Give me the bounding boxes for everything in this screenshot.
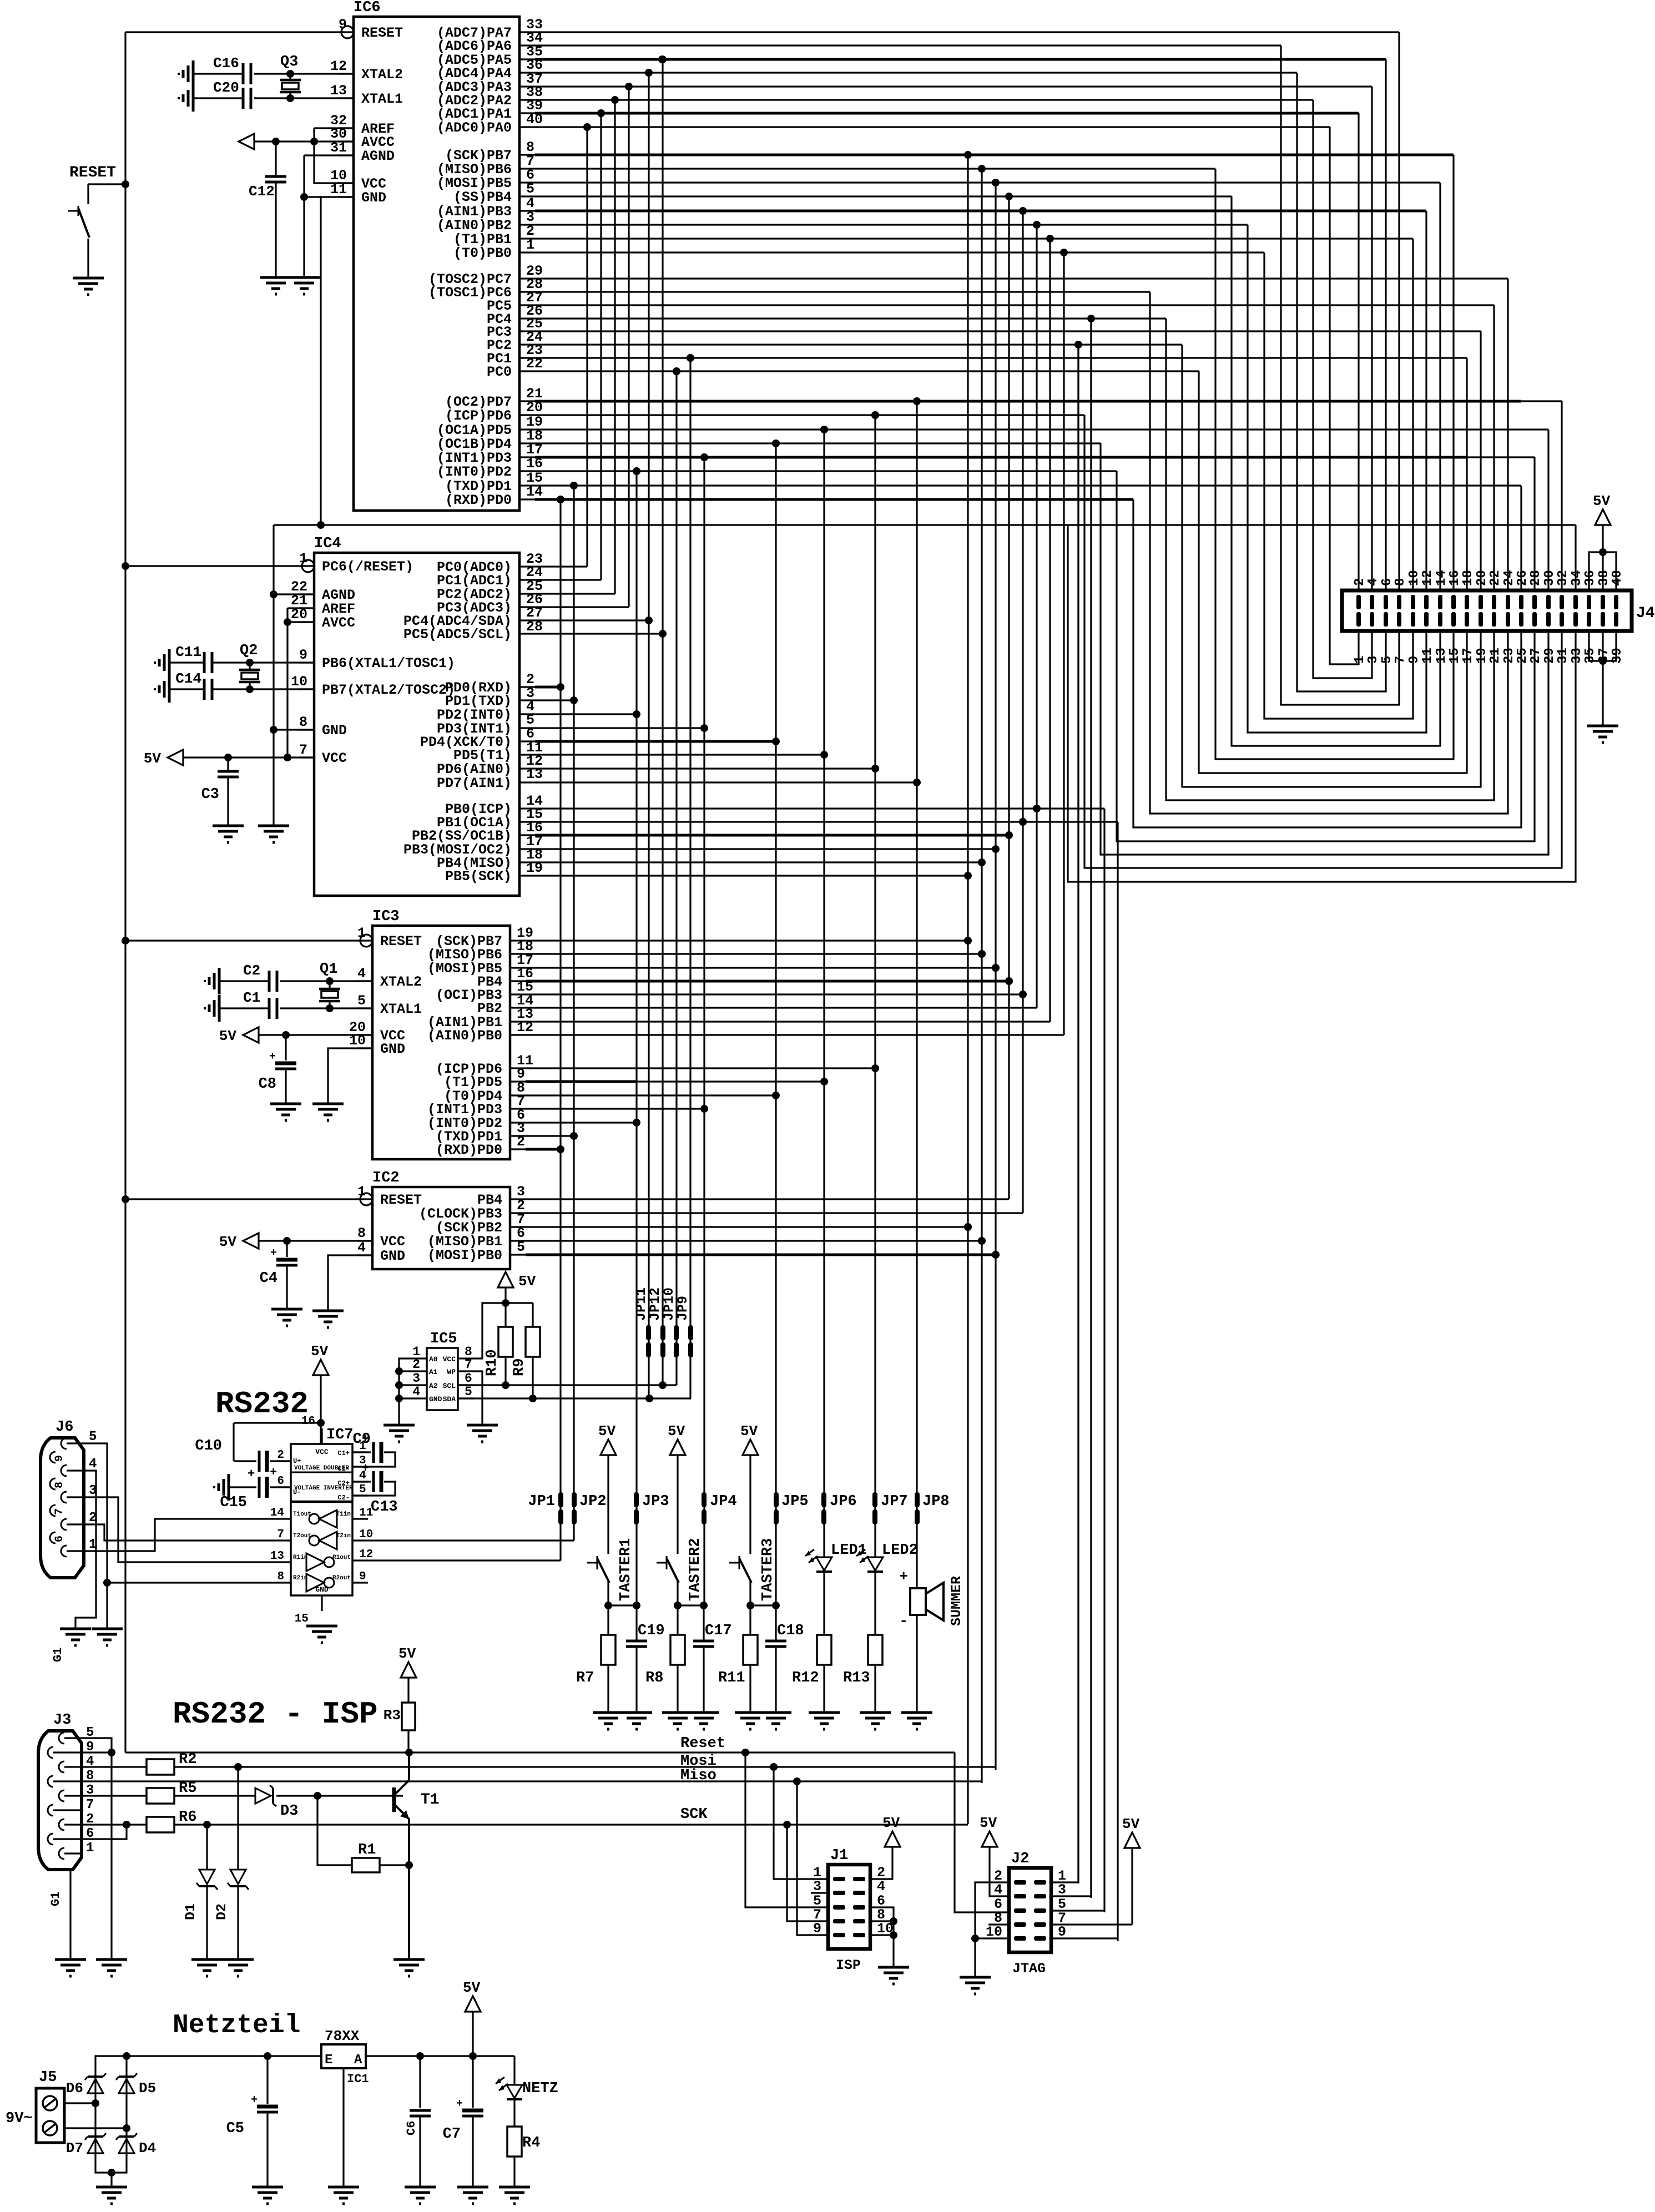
wire J2 pin8 stub (988, 1923, 1009, 1925)
zener diode D3 (174, 1785, 403, 1820)
svg-text:JP2: JP2 (579, 1493, 607, 1510)
svg-text:9: 9 (339, 17, 347, 33)
svg-text:VCC: VCC (380, 1234, 405, 1250)
wire IC4 PD7 row (535, 781, 917, 783)
wire IC4 PB3 row (535, 848, 996, 850)
svg-text:33: 33 (1570, 648, 1585, 664)
svg-text:13: 13 (270, 1550, 284, 1563)
label Netzteil section (173, 2011, 300, 2041)
resistor R1 (317, 1796, 413, 1872)
svg-text:R5: R5 (179, 1780, 196, 1797)
svg-text:A2: A2 (429, 1382, 438, 1390)
svg-text:(RXD)PD0: (RXD)PD0 (436, 1142, 502, 1158)
svg-text:15: 15 (295, 1613, 309, 1625)
wire bold IC4 PD0 row (535, 686, 561, 689)
wire net PD7 row to J4 pin32 (535, 397, 1562, 405)
wire net PA2 branch to IC4 PC2 (535, 100, 615, 594)
wire J4 pin19 wrap (1182, 345, 1481, 787)
svg-text:C10: C10 (195, 1438, 222, 1455)
wire net PB0 row to J4 wrap (535, 249, 1264, 256)
wire J2 pin2/pin10 to ground (971, 1882, 1009, 1977)
J6 pins (50, 1430, 97, 1662)
zener diode D2 (214, 1767, 249, 1960)
wire IC5 VCC (473, 1299, 533, 1358)
ground J3 shield (55, 1960, 86, 1976)
diode D5 (116, 2073, 156, 2097)
svg-text:26: 26 (1515, 570, 1530, 586)
wire J4 pin20 column up (1480, 331, 1481, 590)
svg-text:AVCC: AVCC (322, 615, 355, 631)
wire bold PD7 row (535, 400, 1521, 403)
wire J4 pin15 wrap (1215, 169, 1454, 759)
svg-text:RESET: RESET (380, 1192, 422, 1208)
wire J4 pin10 column up (1412, 239, 1414, 590)
wire SDA row (458, 1395, 691, 1402)
svg-text:C2: C2 (243, 962, 260, 979)
5V supply at TASTER1 (598, 1423, 616, 1554)
svg-text:C2+: C2+ (337, 1479, 350, 1487)
wire IC6 AVCC row (254, 138, 354, 145)
svg-text:4: 4 (357, 1240, 366, 1256)
svg-text:R8: R8 (645, 1670, 663, 1686)
svg-text:T2in: T2in (336, 1533, 351, 1539)
label JP2 (579, 1493, 607, 1510)
wire J3 pin5/pin9 to ground (82, 1738, 115, 1960)
svg-text:2: 2 (1353, 578, 1368, 586)
capacitor C2 (219, 962, 277, 992)
svg-text:C15: C15 (220, 1494, 247, 1511)
wire IC4 PB0 to J2 vertical (1103, 809, 1105, 1912)
wire IC4 PB0 row (535, 805, 1104, 812)
svg-text:C18: C18 (777, 1623, 804, 1639)
wire bridge bottom rail (95, 2153, 127, 2187)
wire IC3 PD6 row (526, 1067, 875, 1069)
svg-text:C8: C8 (259, 1076, 276, 1093)
wire IC4 AVCC row (284, 618, 314, 626)
capacitor C1 (219, 989, 277, 1019)
svg-text:J6: J6 (55, 1419, 73, 1436)
label Reset (680, 1735, 725, 1752)
wire net PB4 row to J4 wrap (535, 193, 1232, 200)
wire IC4 PD6 row (535, 767, 875, 769)
wire TDI lower (1077, 345, 1079, 1882)
wire IC4 AGND row (274, 593, 314, 595)
wire net SCK row (123, 1821, 968, 1829)
svg-text:C9: C9 (353, 1431, 371, 1448)
wire IC4 GND row (270, 726, 314, 734)
wire SPI vertical x=1744 (964, 155, 972, 1824)
wire Reset to J2 pin6 (955, 1753, 1009, 1912)
wire IC4 VCC row (183, 754, 314, 761)
ground IC1 (328, 2187, 359, 2204)
svg-text:13: 13 (330, 83, 347, 99)
label JP11 (633, 1287, 649, 1321)
wire net RESET vertical (122, 32, 129, 1753)
wire net PD2 row to J4 wrap (535, 467, 1117, 475)
label JP6 (830, 1493, 857, 1510)
resistor R2 (82, 1751, 196, 1775)
svg-text:5V: 5V (219, 1234, 237, 1250)
supply arrow IC3 VCC (219, 1027, 259, 1044)
ground IC3 GND (312, 1104, 344, 1120)
svg-text:8: 8 (277, 1570, 284, 1583)
svg-text:R2in: R2in (293, 1575, 307, 1582)
svg-text:R12: R12 (792, 1670, 819, 1686)
svg-text:C1: C1 (243, 989, 260, 1006)
svg-text:4: 4 (89, 1457, 97, 1472)
crystal Q1 (319, 961, 340, 1008)
label JP10 (661, 1287, 677, 1321)
ground IC5 WP (467, 1425, 498, 1442)
ground C14 (155, 676, 169, 703)
ground T1 (393, 1960, 425, 1976)
svg-text:(SS)PB4: (SS)PB4 (453, 189, 512, 205)
ground IC2 GND (312, 1311, 344, 1327)
wire IC4 RESET row (125, 565, 305, 567)
wire IC3 PB1 row (526, 1021, 1050, 1022)
capacitor C4 (260, 1241, 297, 1309)
svg-text:JP8: JP8 (922, 1493, 950, 1510)
wire net PC2 row to J4 wrap (535, 341, 1182, 349)
svg-text:5: 5 (465, 1385, 472, 1399)
svg-text:15: 15 (1447, 648, 1462, 664)
svg-text:19: 19 (1475, 648, 1490, 664)
svg-text:(RXD)PD0: (RXD)PD0 (445, 492, 512, 508)
svg-text:E: E (325, 2053, 332, 2068)
ground at J4 (1587, 661, 1618, 743)
svg-text:R6: R6 (179, 1809, 196, 1826)
wire J3 shield (69, 1870, 71, 1960)
wire IC4 PD0 row (535, 686, 561, 688)
svg-text:C11: C11 (175, 644, 201, 660)
IC7 pin stubs (270, 1415, 373, 1625)
wire SPI vertical x=1868 (1033, 225, 1041, 1008)
5V supply at IC5 (498, 1272, 536, 1303)
svg-text:WP: WP (447, 1368, 456, 1376)
wire net Miso row (82, 1777, 982, 1785)
svg-text:D7: D7 (66, 2140, 83, 2157)
svg-text:7: 7 (1393, 656, 1408, 664)
svg-text:Q2: Q2 (240, 643, 258, 659)
wire IC3 PB5 row (526, 964, 1000, 972)
svg-text:IC1: IC1 (347, 2072, 369, 2086)
svg-text:12: 12 (359, 1548, 373, 1561)
svg-text:5V: 5V (598, 1423, 616, 1440)
diode D7 (66, 2133, 106, 2157)
wire IC4 PD5 row (535, 754, 824, 755)
wire net SDA2 vertical (JP9 col) (687, 354, 694, 1398)
wire IC3 RESET row (125, 940, 364, 941)
svg-text:XTAL1: XTAL1 (361, 91, 403, 107)
wire net PA3 row to J4 pin4 (535, 83, 1372, 90)
wire IC4 PB1 row (535, 818, 1118, 826)
svg-text:27: 27 (1528, 648, 1543, 664)
wire bridge columns (95, 2093, 127, 2135)
ground J2 (960, 1977, 991, 1994)
wire IC4 PC4 row (535, 619, 649, 621)
IC6 left pins (330, 17, 403, 206)
svg-text:5V: 5V (1122, 1816, 1140, 1832)
IC7 internal buffers (293, 1510, 351, 1592)
IC IC5 (I2C EEPROM) (427, 1331, 458, 1410)
ground C2 (205, 968, 219, 994)
wire J4 pin29 wrap (1101, 443, 1548, 855)
wire J4 pins 36,38,40 to 5V (1589, 548, 1616, 590)
wire IC2 RESET row (125, 1198, 364, 1200)
svg-text:8: 8 (53, 1482, 66, 1488)
capacitor C18 (765, 1605, 804, 1713)
wire J4 pin27 wrap (1117, 471, 1535, 841)
5V supply at J2 left (980, 1815, 1009, 1896)
wire IC2 PB0 row (526, 1251, 1000, 1259)
svg-text:JP1: JP1 (528, 1493, 555, 1510)
svg-text:16: 16 (1447, 570, 1462, 586)
wire IC6 RESET row (125, 31, 345, 33)
wire J6 pin2 to IC7 T2out (84, 1524, 275, 1541)
ground R4 (499, 2187, 530, 2204)
wire net PA6 row to J4 wrap (535, 44, 1281, 46)
svg-text:+: + (362, 1462, 369, 1476)
wire net PA3 branch to IC4 PC3 (535, 87, 629, 607)
wire IC6 GND down (320, 196, 321, 525)
ground R12 (809, 1713, 840, 1729)
wire IC3 PB2 row (526, 1007, 1037, 1008)
svg-text:1: 1 (357, 1184, 366, 1200)
svg-text:TASTER3: TASTER3 (760, 1538, 776, 1601)
svg-text:C1+: C1+ (337, 1450, 350, 1457)
wire SPI vertical x=1892 (1049, 239, 1051, 1022)
wire J4 pin26 column up (1520, 486, 1522, 590)
wire J4 pin23 wrap (1150, 292, 1508, 814)
svg-text:IC5: IC5 (430, 1331, 457, 1347)
wire net PD4 vertical (JP5 column) (772, 440, 780, 1605)
IC IC7 (MAX232 RS232 driver) (291, 1427, 354, 1595)
svg-text:7: 7 (86, 1797, 94, 1812)
buzzer SUMMER (899, 1568, 965, 1713)
svg-text:U-: U- (293, 1488, 301, 1496)
wire net PD7 vertical (JP8 column) (913, 397, 921, 1579)
IC4 left pins (291, 551, 455, 766)
wire net PD6 vertical (JP7 column) (871, 411, 879, 1557)
wire net PD5 vertical (JP6 column) (820, 426, 828, 1557)
svg-text:LED2: LED2 (882, 1542, 918, 1559)
svg-text:5: 5 (517, 1239, 525, 1255)
ground J3 pins (96, 1960, 127, 1976)
svg-text:PC5(ADC5/SCL): PC5(ADC5/SCL) (403, 627, 512, 643)
ground SUMMER (901, 1713, 932, 1729)
svg-text:Reset: Reset (680, 1735, 725, 1752)
ground D1 (191, 1960, 223, 1976)
wire net PA1 branch to IC4 PC1 (535, 113, 601, 580)
wire IC4 PD2 row (535, 713, 637, 715)
wire net PC4 row to J4 wrap (535, 315, 1166, 322)
svg-text:RS232: RS232 (215, 1386, 309, 1422)
ground C6 (405, 2187, 436, 2204)
svg-text:1: 1 (1353, 656, 1368, 664)
wire bold IC3 PD0 row (526, 1148, 561, 1151)
resistor R6 (82, 1809, 196, 1832)
svg-text:30: 30 (1542, 570, 1557, 586)
svg-text:9: 9 (53, 1455, 66, 1462)
switch TASTER1 (587, 1538, 634, 1605)
5V supply at J1 (870, 1815, 900, 1879)
ground D2 (223, 1960, 254, 1976)
IC2 left pins (357, 1184, 422, 1264)
wire net PD3 row to J4 pin28 (535, 453, 1535, 461)
label JP8 (922, 1493, 950, 1510)
svg-text:SCL: SCL (443, 1382, 456, 1390)
connector J4 (40-pin header) (1342, 570, 1655, 664)
svg-text:10: 10 (1407, 570, 1422, 586)
svg-text:C16: C16 (213, 55, 239, 72)
svg-text:TASTER2: TASTER2 (687, 1538, 704, 1601)
wire J2 pin7 to 5V (1051, 1923, 1132, 1925)
svg-text:5V: 5V (518, 1273, 536, 1290)
svg-text:24: 24 (1502, 570, 1517, 586)
IC3 left pins (349, 925, 422, 1057)
ground C16 (179, 60, 193, 87)
wire IC4 PB1 to J2 vertical (1117, 822, 1118, 1941)
ground C17 (688, 1713, 719, 1729)
svg-text:9: 9 (359, 1570, 366, 1583)
svg-text:5V: 5V (311, 1343, 329, 1360)
wire J4 pin4 column up (1371, 87, 1373, 590)
svg-text:38: 38 (1597, 570, 1612, 586)
svg-text:2: 2 (412, 1357, 420, 1372)
wire net PC6 row to J4 wrap (535, 291, 1150, 292)
svg-text:6: 6 (465, 1371, 472, 1386)
wire IC2 PB3 row (526, 1212, 1023, 1214)
svg-text:VCC: VCC (315, 1448, 329, 1456)
svg-text:5: 5 (357, 993, 366, 1009)
svg-text:U+: U+ (293, 1457, 301, 1465)
ground R8 (662, 1713, 693, 1729)
svg-text:GND: GND (361, 190, 386, 206)
wire Miso to J1 pin9 (797, 1781, 828, 1935)
5V supply at TASTER3 (740, 1423, 758, 1554)
ground C20 (179, 85, 193, 112)
svg-text:C2-: C2- (337, 1494, 350, 1502)
svg-text:5: 5 (526, 181, 534, 197)
wire net PD1 row to J4 pin26 (535, 482, 1521, 489)
wire TASTER3 junction (746, 1602, 780, 1609)
svg-text:6: 6 (1380, 578, 1395, 586)
wire J4 pin28 column up (1533, 457, 1535, 590)
svg-text:14: 14 (270, 1507, 284, 1519)
svg-text:4: 4 (412, 1385, 420, 1399)
svg-text:11: 11 (1420, 648, 1435, 664)
wire J4 pin22 column up (1493, 305, 1495, 590)
wire bridge top rail (95, 2052, 321, 2077)
wire J2 pin1 right (1051, 1881, 1078, 1883)
svg-text:GND: GND (322, 723, 347, 739)
svg-text:31: 31 (1556, 648, 1571, 664)
capacitor C14 (169, 670, 212, 700)
svg-text:GND: GND (380, 1041, 405, 1057)
wire J4 pin7 wrap (1281, 46, 1399, 705)
wire net PC7 row to J4 pin24 (535, 277, 1508, 279)
wire IC4 AREF-AVCC vertical (284, 608, 291, 761)
ground J6 shield (60, 1629, 91, 1645)
svg-text:9: 9 (1407, 656, 1422, 664)
wire net PA2 row to J4 wrap (535, 96, 1313, 104)
5V supply at J4 (1593, 493, 1611, 552)
switch TASTER2 (657, 1538, 704, 1605)
wire bold IC4 PB2 row (535, 834, 1009, 837)
svg-text:5V: 5V (1593, 493, 1611, 509)
svg-text:GND: GND (380, 1248, 405, 1264)
svg-text:R7: R7 (576, 1670, 594, 1686)
ground IC7 pin15 (306, 1626, 337, 1643)
wire IC2 PB4 row (526, 1198, 1009, 1200)
wire IC4 AREF row (287, 607, 314, 609)
supply arrow IC2 VCC (219, 1233, 259, 1250)
svg-text:PC0: PC0 (487, 364, 512, 380)
wire J3 pin6 jog (82, 1825, 127, 1839)
ground R11 (735, 1713, 766, 1729)
wire J4 pin2 column up (1358, 113, 1359, 590)
svg-text:A: A (354, 2053, 362, 2068)
wire net SDA vertical (JP11 col) (645, 69, 653, 1398)
svg-text:C14: C14 (175, 670, 201, 687)
svg-text:5: 5 (1380, 656, 1395, 664)
capacitor C17 (693, 1605, 732, 1713)
wire net PC1 row to J4 pin18 (535, 354, 1467, 362)
wire J4 pin9 wrap (1264, 252, 1413, 719)
wire net PA7 row to J4 pin8 (535, 31, 1399, 33)
capacitor C3 (201, 757, 239, 826)
wire IC6 AGND row (300, 155, 354, 201)
led NETZ (496, 2056, 558, 2127)
ground R13 (860, 1713, 891, 1729)
wire J5 top to bridge (64, 2099, 99, 2107)
capacitor C20 (193, 79, 251, 109)
svg-text:10: 10 (291, 674, 307, 690)
wire J4 pin25 wrap (1133, 499, 1521, 827)
svg-text:4: 4 (877, 1878, 885, 1895)
IC IC4 (ATmega8) (314, 536, 519, 896)
svg-text:R1in: R1in (293, 1554, 307, 1561)
wire IC4 PB7 row (212, 685, 314, 693)
svg-text:R4: R4 (522, 2135, 540, 2152)
switch RESET (68, 184, 125, 278)
svg-text:5: 5 (89, 1430, 97, 1445)
label 9V~ (6, 2110, 33, 2127)
svg-text:C19: C19 (638, 1623, 665, 1639)
IC IC6 (40-pin AVR) (354, 0, 519, 511)
svg-text:40: 40 (1610, 570, 1625, 586)
ground C12 (260, 277, 291, 294)
svg-text:Netzteil: Netzteil (173, 2011, 300, 2041)
svg-text:G1: G1 (49, 1892, 63, 1906)
svg-text:+: + (251, 2094, 258, 2107)
svg-text:7: 7 (299, 742, 307, 758)
svg-text:XTAL2: XTAL2 (380, 974, 422, 990)
wire IC4 PD3 row (535, 727, 704, 729)
label Miso (680, 1767, 717, 1784)
ground C1 (205, 995, 219, 1022)
wire J4 pins 35,37,39 to ground (1589, 631, 1616, 665)
svg-text:8: 8 (1393, 578, 1408, 586)
svg-text:9V~: 9V~ (6, 2110, 33, 2127)
wire net PB5 row to J4 pin14 (535, 179, 1440, 186)
wire J4 pin11 wrap (1248, 225, 1426, 733)
svg-text:J3: J3 (53, 1712, 71, 1729)
wire J6 pin5 to ground (84, 1443, 107, 1629)
label RS232 section (215, 1386, 309, 1422)
resistor R8 (645, 1605, 685, 1713)
connector J1 (ISP) (813, 1847, 894, 1973)
